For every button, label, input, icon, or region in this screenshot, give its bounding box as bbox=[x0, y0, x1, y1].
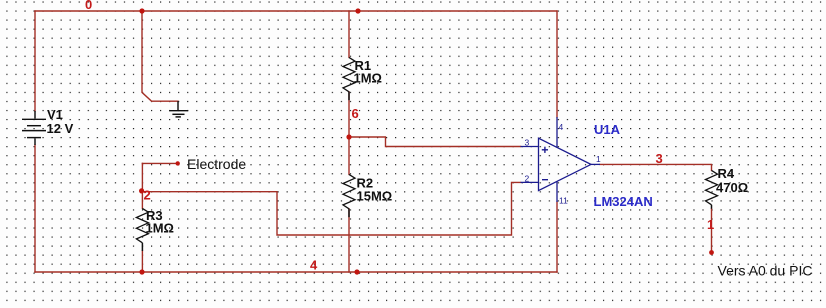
svg-text:11: 11 bbox=[559, 196, 568, 206]
ground bbox=[169, 101, 188, 117]
svg-text:1: 1 bbox=[707, 217, 714, 232]
wire net 3 op-amp output to R4 bbox=[600, 164, 712, 170]
svg-text:1: 1 bbox=[596, 154, 601, 164]
node electrode endpoint dot bbox=[176, 161, 180, 165]
svg-text:4: 4 bbox=[559, 122, 564, 132]
battery V1 bbox=[22, 111, 46, 145]
svg-text:U1A: U1A bbox=[594, 122, 621, 137]
svg-text:4: 4 bbox=[310, 258, 318, 273]
junction bottom rail / R3 bbox=[139, 269, 144, 274]
wire V1 negative to bottom rail bbox=[34, 145, 36, 272]
svg-text:1MΩ: 1MΩ bbox=[146, 221, 174, 236]
svg-text:2: 2 bbox=[525, 174, 530, 184]
svg-text:3: 3 bbox=[656, 151, 663, 166]
svg-text:1MΩ: 1MΩ bbox=[354, 71, 382, 86]
svg-text:3: 3 bbox=[525, 138, 530, 148]
svg-text:R4: R4 bbox=[718, 166, 735, 181]
wire op-amp pin 4 to top rail bbox=[556, 11, 558, 117]
op-amp plus sign bbox=[542, 147, 548, 153]
svg-text:0: 0 bbox=[85, 0, 92, 12]
svg-text:6: 6 bbox=[352, 106, 359, 121]
svg-text:15MΩ: 15MΩ bbox=[357, 189, 393, 204]
svg-text:LM324AN: LM324AN bbox=[594, 194, 653, 209]
svg-text:12 V: 12 V bbox=[47, 121, 74, 136]
op-amp U1A bbox=[521, 117, 601, 202]
node net 1 endpoint dot bbox=[709, 250, 714, 255]
op-amp minus sign bbox=[542, 179, 548, 181]
resistor R4 bbox=[706, 170, 718, 208]
wire net 4 bottom rail bbox=[35, 271, 557, 273]
wire node 6 to op-amp + input bbox=[349, 137, 521, 147]
wire net 0 top rail bbox=[35, 10, 557, 12]
junction top rail / R1 branch bbox=[355, 8, 360, 13]
junction top rail / ground branch bbox=[139, 8, 144, 13]
svg-text:V1: V1 bbox=[47, 107, 63, 122]
wire electrode stub bbox=[142, 162, 177, 164]
svg-text:470Ω: 470Ω bbox=[716, 180, 748, 195]
wire node 6 R1-R2 link bbox=[348, 92, 350, 175]
svg-text:2: 2 bbox=[144, 188, 151, 203]
svg-text:Vers A0 du PIC: Vers A0 du PIC bbox=[718, 263, 813, 279]
wire electrode down to R3 bbox=[141, 163, 143, 208]
wire V1 positive lead (left drop) bbox=[34, 11, 36, 111]
wire R3 bottom to rail bbox=[141, 251, 143, 272]
junction net 2 tee bbox=[139, 188, 144, 193]
resistor R2 bbox=[343, 174, 355, 217]
wire R2 bottom to rail bbox=[348, 209, 350, 272]
wire op-amp pin 11 to bottom rail bbox=[556, 202, 558, 272]
junction node 6 bbox=[346, 134, 351, 139]
svg-text:Electrode: Electrode bbox=[187, 156, 246, 172]
resistor R1 bbox=[343, 57, 355, 100]
wire net 2 feedback to op-amp - input bbox=[142, 182, 520, 235]
wire R1 top lead from rail bbox=[348, 11, 350, 57]
wire ground branch from top rail bbox=[142, 11, 178, 101]
wire net 1 R4 bottom to endpoint bbox=[711, 209, 713, 253]
junction bottom rail / R2 bbox=[354, 269, 359, 274]
resistor R3 bbox=[136, 208, 148, 251]
